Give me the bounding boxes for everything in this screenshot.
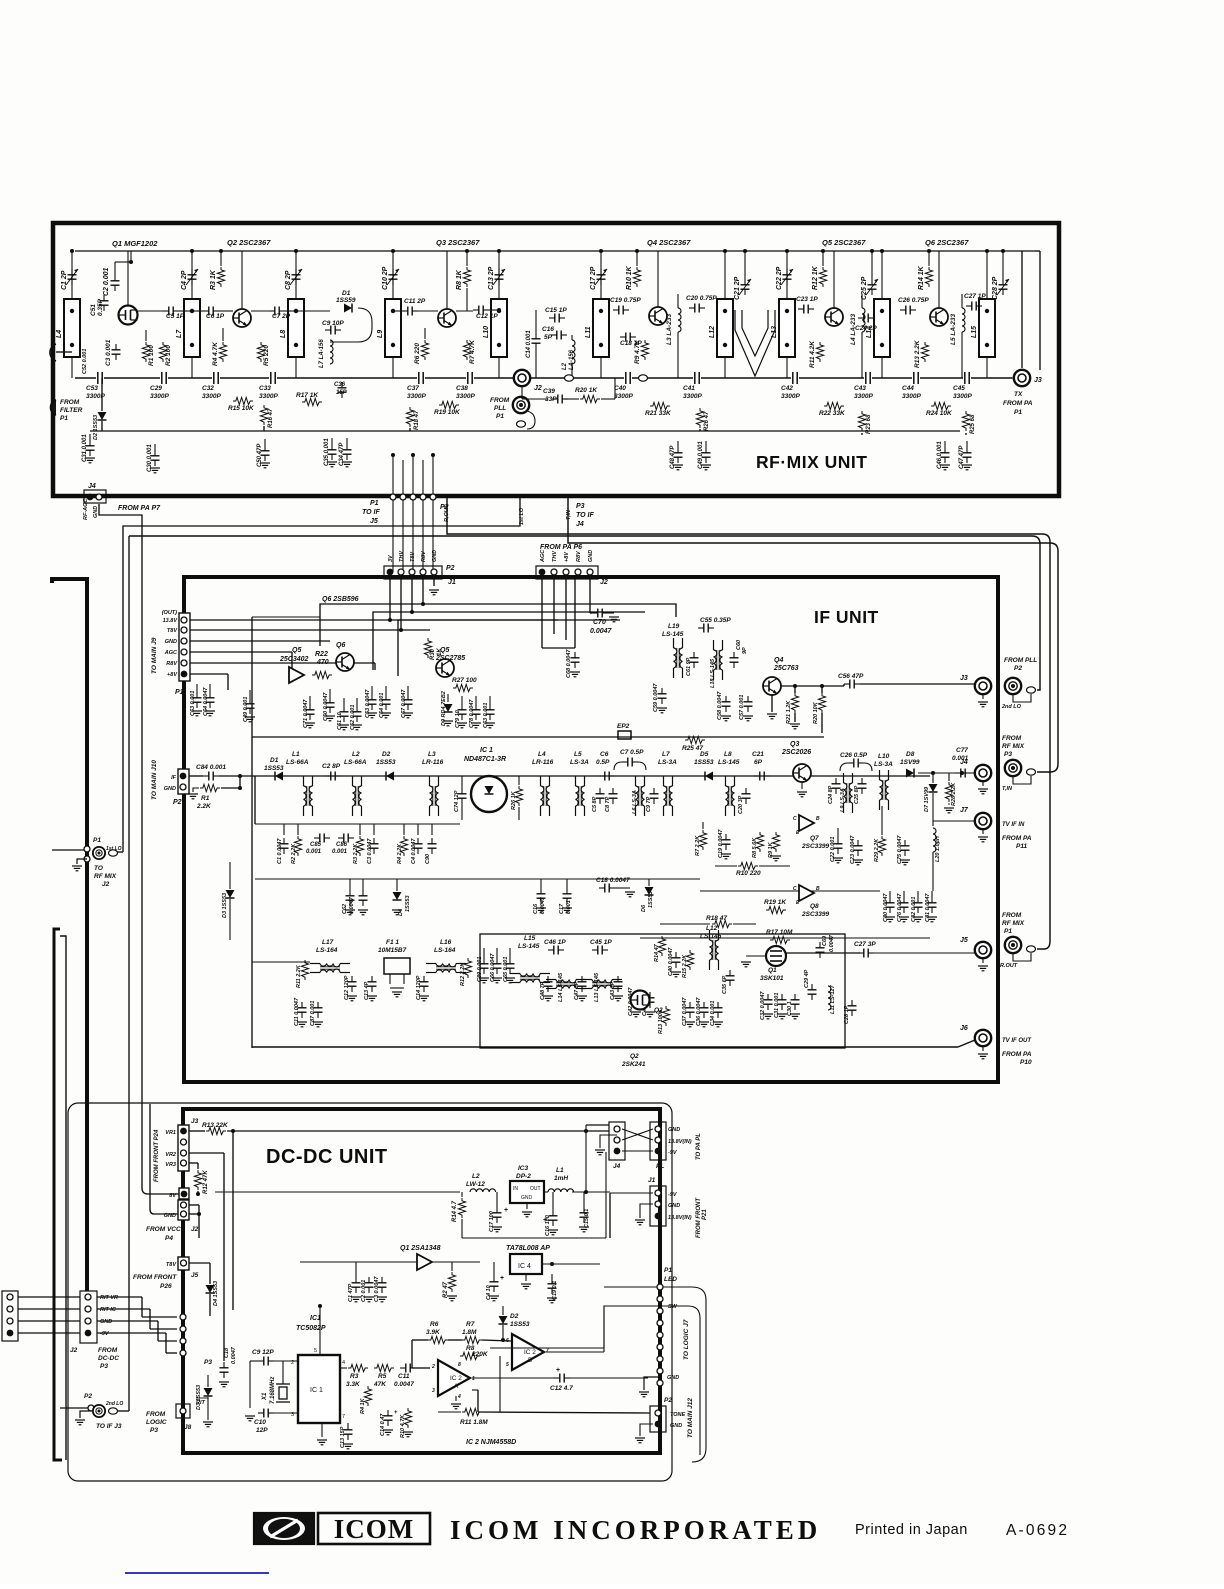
- svg-text:L4: L4: [56, 330, 63, 338]
- svg-text:ICOM: ICOM: [334, 1514, 415, 1544]
- svg-text:B: B: [816, 816, 820, 822]
- svg-text:C6: C6: [600, 751, 609, 758]
- svg-text:FROM FRONT P24: FROM FRONT P24: [154, 1129, 160, 1182]
- svg-text:C21: C21: [752, 751, 764, 758]
- svg-text:R22 33K: R22 33K: [819, 410, 846, 417]
- wire J9 row1: [190, 619, 558, 621]
- svg-text:3300P: 3300P: [456, 393, 475, 400]
- pin P1 strip 1: [657, 1284, 663, 1290]
- svg-text:C15 0.1: C15 0.1: [584, 1209, 590, 1228]
- svg-text:R1: R1: [201, 795, 210, 802]
- wire J2 drop3: [541, 579, 543, 648]
- svg-text:8: 8: [458, 1362, 461, 1368]
- capacitor C81 0.0047: [928, 897, 937, 913]
- connector P2 TONE: [650, 1406, 666, 1432]
- half-moon from-filter: [51, 400, 56, 415]
- svg-text:C11 2P: C11 2P: [404, 298, 426, 305]
- wire IC1 top: [319, 1306, 321, 1355]
- connector 8V: [179, 1188, 189, 1199]
- connector oval P1: [517, 421, 526, 427]
- svg-text:7.168MHz: 7.168MHz: [270, 1377, 276, 1404]
- connector FROM PA P6 J2: [536, 566, 598, 579]
- svg-text:1.8M: 1.8M: [462, 1329, 477, 1336]
- capacitor C24 2P: [858, 314, 874, 323]
- svg-text:TO MAIN J9: TO MAIN J9: [151, 637, 158, 674]
- transistor Q5b 2SC2785: [436, 659, 454, 677]
- resistor R6 220: [421, 340, 428, 360]
- svg-text:C42: C42: [781, 385, 793, 392]
- resistor R19 1K: [766, 906, 786, 913]
- transistor Q6 pwr: [336, 653, 354, 671]
- svg-text:R28 2.2K: R28 2.2K: [951, 782, 957, 806]
- wire Q4 out: [781, 685, 844, 687]
- svg-text:C10: C10: [254, 1419, 266, 1426]
- connector PL: [650, 1122, 666, 1160]
- resistor R8 220K: [460, 1352, 480, 1359]
- pin J3 VR3: [181, 1160, 187, 1166]
- svg-text:FROM: FROM: [146, 1411, 166, 1418]
- svg-text:R11 2.2K: R11 2.2K: [296, 964, 302, 988]
- svg-text:IC 2: IC 2: [450, 1375, 462, 1382]
- svg-text:LR-116: LR-116: [532, 759, 554, 766]
- svg-text:P10: P10: [1020, 1059, 1032, 1066]
- capacitor C1 0.0047: [280, 838, 289, 854]
- svg-text:3.9K: 3.9K: [426, 1329, 441, 1336]
- wire column L4: [71, 251, 73, 299]
- svg-text:VR1: VR1: [165, 1130, 176, 1136]
- capacitor C50 47P: [261, 445, 270, 461]
- wire gnd curve: [150, 1104, 178, 1214]
- svg-text:L11: L11: [585, 326, 592, 338]
- wire Q1 to C5: [137, 310, 163, 312]
- svg-text:TA78L008 AP: TA78L008 AP: [506, 1245, 550, 1252]
- resistor R4 4.7K: [219, 342, 226, 362]
- svg-text:T8V: T8V: [167, 628, 178, 634]
- transistor Q4: [649, 307, 667, 325]
- svg-text:C41: C41: [683, 385, 695, 392]
- svg-text:J3: J3: [1034, 377, 1042, 384]
- svg-text:P1: P1: [1004, 928, 1012, 935]
- svg-text:RIT VR: RIT VR: [100, 1295, 118, 1301]
- blue mark: [125, 1572, 269, 1574]
- capacitor C2 0.001: [111, 275, 120, 291]
- capacitor C45 1P: [592, 946, 608, 955]
- svg-text:Q5 2SC2367: Q5 2SC2367: [822, 238, 866, 247]
- connector oval P3r: [1027, 769, 1036, 775]
- pin J4c: [614, 1148, 621, 1155]
- svg-text:DC-DC: DC-DC: [98, 1355, 119, 1362]
- svg-text:L1: L1: [556, 1167, 564, 1174]
- svg-text:LS-3A: LS-3A: [658, 759, 677, 766]
- diode D2 1SS53 RF: [98, 412, 107, 420]
- svg-text:1SS59: 1SS59: [336, 297, 356, 304]
- svg-text:R26 47: R26 47: [704, 411, 710, 431]
- pin P1 strip 2: [657, 1296, 663, 1302]
- svg-text:L10: L10: [878, 753, 890, 760]
- svg-text:L14 LS-145: L14 LS-145: [558, 972, 564, 1002]
- svg-text:R6 220: R6 220: [414, 343, 421, 364]
- svg-text:2SC3399: 2SC3399: [801, 911, 829, 918]
- svg-text:+8V: +8V: [564, 551, 570, 562]
- ground Q1g: [741, 962, 751, 967]
- capacitor C75 0.0047: [901, 840, 910, 856]
- inductor L3 LA-233: [678, 308, 681, 332]
- svg-text:R20 10K: R20 10K: [813, 701, 819, 724]
- ground P2L: [80, 1411, 91, 1418]
- transistor Q1: [119, 306, 138, 325]
- svg-text:L5: L5: [574, 751, 582, 758]
- svg-text:IN: IN: [513, 1186, 518, 1192]
- capacitor C84 0.001: [203, 772, 219, 781]
- capacitor C79 10: [458, 704, 467, 720]
- svg-text:C10 2P: C10 2P: [382, 266, 389, 290]
- svg-text:C57 0.001: C57 0.001: [739, 695, 745, 720]
- ground R1: [193, 788, 199, 792]
- svg-text:-9V: -9V: [668, 1150, 678, 1156]
- capacitor C27 1P: [966, 302, 982, 311]
- svg-text:R5 220: R5 220: [263, 345, 270, 366]
- wire ROUT bus: [447, 497, 1050, 949]
- ic IC1 box: [298, 1355, 340, 1423]
- svg-text:LS-66A: LS-66A: [344, 759, 367, 766]
- svg-text:C25 8P: C25 8P: [854, 785, 860, 804]
- svg-text:FROM PA: FROM PA: [1002, 835, 1032, 842]
- svg-text:C5 1P: C5 1P: [166, 313, 185, 320]
- svg-text:2.2K: 2.2K: [196, 803, 212, 810]
- svg-text:Q4 2SC2367: Q4 2SC2367: [647, 238, 691, 247]
- wire gnd join: [189, 1204, 199, 1206]
- capacitor C11 2P: [402, 307, 418, 316]
- svg-text:5P: 5P: [544, 334, 553, 341]
- ground C54 0.001: [381, 713, 391, 718]
- svg-text:RF MIX: RF MIX: [1002, 743, 1025, 750]
- capacitor C17 0.001: [563, 888, 572, 904]
- svg-text:D6: D6: [641, 904, 647, 912]
- svg-text:L18 LS-145: L18 LS-145: [710, 658, 716, 688]
- svg-text:0.5P: 0.5P: [596, 759, 610, 766]
- capacitor C7 2P: [269, 307, 285, 316]
- resistor R2 2.2K: [294, 836, 301, 856]
- ic IC4: [510, 1254, 542, 1274]
- resistor R5 220: [257, 342, 264, 362]
- svg-text:Q1 MGF1202: Q1 MGF1202: [112, 239, 158, 248]
- svg-text:SW: SW: [668, 1304, 678, 1310]
- jack J5 IF: [975, 942, 991, 958]
- wire L7 to C6: [192, 310, 203, 312]
- svg-text:IC1: IC1: [310, 1315, 321, 1322]
- svg-text:C23 0.0047: C23 0.0047: [850, 835, 856, 864]
- svg-text:FROM FRONT: FROM FRONT: [133, 1274, 177, 1281]
- resistor R26 47: [696, 408, 703, 428]
- capacitor C2 0.001 dc: [365, 1277, 374, 1293]
- resistor R12 1K: [819, 267, 826, 287]
- svg-text:C27 1P: C27 1P: [964, 293, 986, 300]
- capacitor C59 0.0047: [658, 688, 667, 704]
- svg-text:1SS53: 1SS53: [648, 891, 654, 908]
- svg-text:P3: P3: [204, 1359, 212, 1366]
- wire column L11: [600, 251, 602, 299]
- pin J9 13.8V: [181, 617, 187, 623]
- resistor R26 1K IF: [515, 786, 522, 806]
- pin P1 strip 6: [657, 1344, 663, 1350]
- svg-text:L8: L8: [724, 751, 732, 758]
- wire blockA left: [490, 1347, 604, 1349]
- svg-text:C28 1P: C28 1P: [844, 1005, 850, 1024]
- resistor R11 4.2K: [816, 342, 823, 362]
- rounded block B: [604, 1306, 700, 1455]
- svg-text:C62: C62: [342, 904, 348, 914]
- capacitor C42 3300P: [791, 372, 799, 384]
- svg-text:3300P: 3300P: [902, 393, 921, 400]
- svg-text:C13 2P: C13 2P: [488, 266, 495, 290]
- wire J1 -9v: [610, 1192, 653, 1194]
- svg-text:C45 1P: C45 1P: [590, 939, 612, 946]
- wire C5 to L7: [179, 310, 192, 312]
- svg-text:0.001: 0.001: [566, 900, 572, 914]
- svg-text:IC 1: IC 1: [310, 1387, 323, 1394]
- wire PLL bend: [527, 411, 535, 429]
- svg-text:Q2: Q2: [630, 1053, 639, 1060]
- svg-text:C16 100: C16 100: [545, 1215, 551, 1236]
- svg-text:C1 0.0047: C1 0.0047: [277, 838, 283, 864]
- capacitor C46 0.001: [941, 447, 950, 463]
- svg-text:C29 4P: C29 4P: [804, 969, 810, 988]
- pin J2-3: [563, 569, 569, 575]
- rounded block A: [604, 1287, 706, 1462]
- svg-text:Q3: Q3: [790, 741, 799, 748]
- svg-text:C81 0.0047: C81 0.0047: [925, 893, 931, 922]
- svg-text:C53: C53: [86, 385, 98, 392]
- ground C51 10: [339, 725, 349, 730]
- wire J4 cross2: [622, 1129, 653, 1140]
- connector J8: [176, 1404, 190, 1418]
- wire ic2b out: [546, 1351, 604, 1353]
- wire RF lower bus: [90, 430, 960, 432]
- wire bundle drop 4: [422, 460, 424, 572]
- capacitor C44 3300P: [912, 372, 920, 384]
- svg-text:R14 47: R14 47: [654, 943, 660, 962]
- svg-text:J2: J2: [102, 881, 110, 888]
- transformer L16 LS-164: [426, 964, 466, 973]
- svg-text:1SS53: 1SS53: [510, 1321, 530, 1328]
- svg-text:R27 100: R27 100: [452, 677, 477, 684]
- svg-text:D3 1SS53: D3 1SS53: [222, 893, 228, 918]
- resistor R4 2.2K: [400, 836, 407, 856]
- ground C48 47P: [673, 465, 683, 470]
- connector TO MAIN J10: [178, 769, 189, 794]
- svg-text:RF-AGC: RF-AGC: [83, 498, 89, 520]
- wire reg out: [542, 1263, 600, 1265]
- svg-text:P1: P1: [496, 413, 504, 420]
- svg-text:GND: GND: [93, 506, 99, 518]
- capacitor C37 3300P: [417, 372, 425, 384]
- transformer L4 LR-116: [541, 776, 550, 816]
- svg-text:C18: C18: [224, 1347, 230, 1358]
- oval junction bus1: [565, 375, 574, 381]
- pin P1 strip 3: [657, 1308, 663, 1314]
- wire C39 link: [522, 398, 548, 400]
- svg-text:C23 1P: C23 1P: [796, 296, 818, 303]
- wire J1 drop2: [400, 579, 402, 630]
- transformer L13 LS-145: [582, 980, 622, 989]
- svg-text:LS-66A: LS-66A: [286, 759, 309, 766]
- capacitor C31 0.001: [778, 994, 787, 1010]
- ground J3 IF: [978, 702, 988, 707]
- jack P2 2nd LO: [93, 1405, 105, 1417]
- capacitor C37 0.0047 IF: [686, 1002, 695, 1018]
- resistor R10 4.7K dc: [404, 1408, 411, 1428]
- svg-text:D7 1SV99: D7 1SV99: [924, 786, 930, 812]
- trimmer capacitor C8 2P: [290, 269, 302, 285]
- capacitor C49 0.001: [246, 698, 255, 714]
- wire chain main: [240, 775, 930, 777]
- transformer L12 LS-145: [710, 930, 719, 970]
- resistor R8 5.6K: [756, 832, 763, 852]
- capacitor C12 1P: [473, 306, 489, 315]
- svg-text:P3: P3: [1004, 751, 1012, 758]
- svg-text:LS-3A: LS-3A: [570, 759, 589, 766]
- svg-text:LOGIC: LOGIC: [146, 1419, 167, 1426]
- inductor L11: [593, 299, 609, 357]
- pin J1-2: [398, 569, 404, 575]
- svg-text:C55 0.35P: C55 0.35P: [700, 617, 731, 624]
- resistor R11 2.2K: [301, 960, 308, 980]
- resistor R13 22K: [206, 1127, 226, 1134]
- pin J9 R8V: [181, 660, 187, 666]
- wire filter stub: [56, 351, 72, 353]
- pin J1-1: [387, 569, 394, 576]
- svg-text:C75 0.0047: C75 0.0047: [897, 835, 903, 864]
- capacitor C1 47P dc: [352, 1277, 361, 1293]
- svg-text:R2 47: R2 47: [443, 1281, 449, 1298]
- pin P1 strip 4: [657, 1320, 663, 1326]
- wire J4 gnd: [600, 1135, 617, 1148]
- resistor R8 1K: [463, 267, 470, 287]
- inductor L11 LS-127: [828, 986, 831, 1010]
- svg-text:TX: TX: [1014, 391, 1023, 398]
- svg-text:PL: PL: [656, 1163, 664, 1170]
- capacitor C70 0.0047: [592, 609, 608, 618]
- ic IC3 DP-2: [510, 1181, 544, 1203]
- capacitor C11 0.0047 dc: [400, 1364, 416, 1373]
- svg-text:IF: IF: [171, 775, 177, 781]
- wire 2ndLO bus: [129, 536, 1040, 690]
- wire RF bus: [75, 377, 1012, 379]
- resistor R7 1.8M: [462, 1336, 482, 1343]
- resistor R18 47: [712, 920, 732, 927]
- capacitor C15 1P: [549, 314, 565, 323]
- opamp IC2A: [438, 1360, 470, 1396]
- wire sub rail 2: [255, 878, 700, 880]
- svg-text:P3: P3: [100, 1363, 108, 1370]
- svg-text:2nd LO: 2nd LO: [105, 1401, 123, 1407]
- svg-text:3SK101: 3SK101: [760, 975, 784, 982]
- svg-text:THV: THV: [399, 550, 405, 562]
- diode D8 1SV99: [906, 769, 914, 778]
- pin J4a: [614, 1126, 620, 1132]
- wire heavy ground bus: [52, 579, 87, 1291]
- svg-text:R10 4.7K: R10 4.7K: [400, 1414, 406, 1438]
- svg-text:1SS53: 1SS53: [376, 759, 396, 766]
- svg-text:LS-164: LS-164: [316, 947, 338, 954]
- wire chain start: [189, 775, 203, 777]
- connector P2/J1: [384, 566, 442, 579]
- wire J1 drop1: [389, 579, 391, 620]
- capacitor C67 0.0047: [404, 694, 413, 710]
- svg-text:TO IF: TO IF: [362, 509, 380, 516]
- svg-text:P2: P2: [1014, 665, 1022, 672]
- capacitor C48 47P: [674, 447, 683, 463]
- capacitor C4 0.0047: [414, 838, 423, 854]
- svg-text:L6 LS-3A: L6 LS-3A: [632, 790, 638, 814]
- svg-text:TO PA PL: TO PA PL: [696, 1133, 702, 1160]
- svg-text:LW-12: LW-12: [466, 1181, 485, 1188]
- svg-text:D2: D2: [382, 751, 391, 758]
- capacitor C10 12P: [258, 1409, 274, 1418]
- capacitor C14 120P: [420, 976, 429, 992]
- wire column L9: [392, 251, 394, 299]
- pin RF P2-1: [390, 494, 396, 500]
- svg-text:C2 8P: C2 8P: [322, 763, 341, 770]
- svg-text:C56 47P: C56 47P: [838, 673, 864, 680]
- svg-text:J3: J3: [191, 1118, 199, 1125]
- ground C52 0.001: [352, 725, 362, 730]
- svg-text:C48 7P: C48 7P: [540, 981, 546, 1000]
- resistor R13 2.2K: [921, 342, 928, 362]
- svg-text:R12 47K: R12 47K: [203, 1170, 209, 1194]
- svg-text:47K: 47K: [373, 1381, 387, 1388]
- svg-text:1SV99: 1SV99: [900, 759, 920, 766]
- capacitor C9 10P: [325, 326, 341, 335]
- resistor R5 47K: [374, 1364, 394, 1371]
- svg-text:C20 0.75P: C20 0.75P: [686, 295, 717, 302]
- resistor R27 100: [453, 684, 473, 691]
- svg-text:1mH: 1mH: [554, 1175, 568, 1182]
- wire opamp row: [412, 1339, 428, 1341]
- trimmer capacitor C28 2P: [997, 279, 1009, 295]
- pin FL3: [7, 1318, 13, 1324]
- resistor R14 1K: [925, 267, 932, 287]
- wire VR2 drop: [189, 1152, 224, 1154]
- svg-text:C31 0.001: C31 0.001: [774, 993, 780, 1018]
- svg-text:FROM PLL: FROM PLL: [1004, 657, 1037, 664]
- resistor R17 1K: [302, 398, 322, 405]
- transformer L9 LS-3A: [844, 773, 853, 813]
- svg-text:GND: GND: [670, 1423, 682, 1429]
- pin dcdc left 1353: [180, 1350, 186, 1356]
- svg-text:C69: C69: [822, 935, 828, 946]
- svg-text:0.35P: 0.35P: [97, 298, 104, 316]
- svg-text:L8: L8: [280, 330, 287, 338]
- capacitor C4 10 dc: [490, 1276, 499, 1292]
- svg-text:D4: D4: [398, 909, 404, 916]
- diode D2 1SS53: [386, 772, 394, 781]
- svg-text:C17 100: C17 100: [489, 1211, 495, 1232]
- svg-text:R15 10K: R15 10K: [228, 405, 255, 412]
- capacitor C38 3300P: [466, 372, 474, 384]
- resistor R29 2.2K: [878, 836, 885, 856]
- connector J5 T8V: [178, 1257, 189, 1270]
- capacitor C22 0.001 IF: [834, 838, 843, 854]
- capacitor C55 0.35P: [698, 624, 714, 633]
- svg-text:C77: C77: [956, 747, 968, 754]
- inductor L5 LA-233: [962, 308, 965, 332]
- ground IC2A: [451, 1404, 461, 1409]
- svg-text:TC5082P: TC5082P: [296, 1325, 326, 1332]
- crystal X1: [276, 1383, 290, 1385]
- svg-text:3300P: 3300P: [953, 393, 972, 400]
- capacitor C86 0.001: [338, 834, 354, 843]
